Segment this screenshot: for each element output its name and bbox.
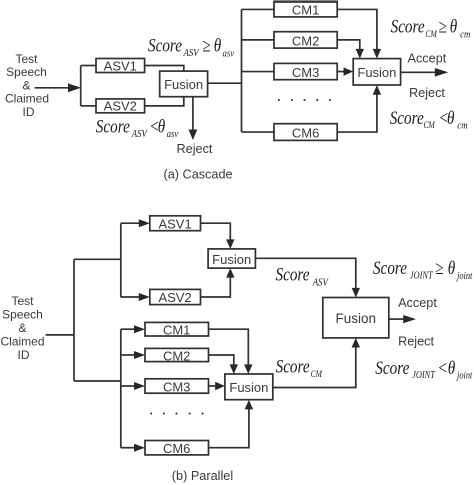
- arrowhead: into CM3 bottom: [134, 382, 145, 390]
- svg-text:asv: asv: [167, 128, 179, 140]
- dots top: [278, 99, 280, 101]
- wire: accept arrow line bottom: [389, 318, 404, 320]
- box CM6 top: [274, 124, 337, 141]
- svg-text:θ: θ: [448, 258, 456, 279]
- svg-text:Fusion: Fusion: [164, 77, 203, 92]
- svg-text:Score: Score: [96, 116, 130, 137]
- arrowhead: accept top: [435, 68, 449, 77]
- svg-text:Score: Score: [276, 264, 310, 285]
- box CM1 top: [274, 2, 337, 17]
- svg-text:≥: ≥: [435, 258, 443, 279]
- svg-text:θ: θ: [447, 107, 455, 128]
- label Score_ASV < theta_asv: [96, 116, 179, 141]
- arrowhead: CM3 into fusionB right: [215, 382, 225, 390]
- arrowhead: into CM2 bottom: [134, 351, 145, 359]
- box CM3 bottom: [145, 379, 209, 393]
- arrowhead: into CM6 bottom: [134, 444, 145, 452]
- svg-text:&: &: [18, 321, 26, 335]
- svg-text:<: <: [437, 357, 447, 378]
- wire: CM3 to fusionB left: [209, 385, 216, 387]
- arrowhead: CM2 into fusion2 down: [356, 49, 364, 59]
- svg-text:≥: ≥: [202, 35, 210, 56]
- wire: bus to CM1 arrow shaft: [121, 328, 136, 330]
- box ASV2 top: [96, 99, 145, 113]
- arrowhead: accept bottom: [403, 315, 416, 323]
- node: test speech claimed id bottom: [0, 294, 44, 362]
- label Score_JOINT < theta_joint: [375, 357, 472, 382]
- svg-text:CM1: CM1: [163, 323, 190, 338]
- wire: bus to CM1: [242, 8, 275, 10]
- wire: ASV2 to fusion1 connector: [145, 97, 184, 106]
- svg-text:CM6: CM6: [163, 441, 190, 456]
- box CM6 bottom: [145, 441, 209, 455]
- wire: top CM bus vertical: [241, 9, 243, 132]
- arrowhead: ASV1 into fusionA down: [226, 239, 234, 249]
- box FusionB bottom: [225, 374, 273, 400]
- arrowhead: into CM1 bottom: [134, 325, 145, 333]
- arrowhead: CM1 into fusionB down: [244, 364, 252, 374]
- wire: CM1 to fusion2 top: [337, 9, 377, 49]
- svg-text:Claimed: Claimed: [0, 335, 44, 349]
- svg-text:joint: joint: [455, 371, 472, 382]
- svg-text:θ: θ: [450, 16, 458, 37]
- svg-text:Score: Score: [390, 107, 424, 128]
- svg-text:Accept: Accept: [398, 296, 437, 310]
- box CM1 bottom: [145, 322, 209, 336]
- dots bottom: [150, 412, 152, 414]
- wire: CM6 to fusionB bottom: [209, 409, 249, 448]
- arrowhead: CM6 into fusionB up: [245, 400, 253, 410]
- svg-text:CM: CM: [424, 119, 436, 130]
- svg-text:cm: cm: [460, 29, 470, 41]
- wire: bus to ASV1 arrow shaft: [121, 222, 140, 224]
- box Fusion1 top: [160, 71, 208, 97]
- box CM2 bottom: [145, 348, 209, 361]
- wire: CM6 to fusion2 bottom: [337, 94, 377, 132]
- svg-text:ASV2: ASV2: [158, 290, 191, 305]
- node: test speech claimed id top: [5, 52, 49, 119]
- box ASV1 bottom: [150, 216, 201, 231]
- box ASV2 bottom: [150, 289, 201, 304]
- svg-text:Speech: Speech: [2, 308, 43, 322]
- box Fusion2 top: [353, 59, 400, 85]
- svg-text:Reject: Reject: [398, 335, 434, 349]
- wire: accept arrow line top: [401, 71, 436, 73]
- label Score_JOINT >= theta_joint: [373, 258, 473, 283]
- label Score_ASV >= theta_asv: [148, 35, 235, 60]
- box final Fusion: [323, 298, 389, 338]
- svg-text:ASV1: ASV1: [104, 58, 137, 73]
- arrowhead: into ASV2 bottom: [139, 293, 150, 301]
- svg-text:Score: Score: [276, 356, 310, 377]
- wire: bus to CM6: [242, 131, 275, 133]
- wire: bus to CM3 arrow shaft: [121, 385, 136, 387]
- svg-text:CM6: CM6: [292, 126, 319, 141]
- label Score_CM >= theta_cm: [391, 16, 471, 41]
- arrowhead: scoreCM into final fusion up: [352, 338, 360, 348]
- wire: CM3 to fusion2 left: [337, 71, 344, 73]
- svg-text:ASV: ASV: [183, 47, 201, 59]
- wire: stem to ASV bus: [74, 258, 121, 260]
- box CM2 top: [274, 32, 337, 48]
- wire: bus to CM2 arrow shaft: [121, 354, 136, 356]
- wire: fusion1 reject drop: [192, 97, 194, 131]
- wire: top input line: [35, 87, 71, 89]
- svg-text:Reject: Reject: [177, 142, 213, 156]
- svg-text:ASV2: ASV2: [104, 99, 137, 114]
- svg-text:JOINT: JOINT: [412, 370, 435, 381]
- svg-text:cm: cm: [457, 120, 467, 132]
- svg-text:asv: asv: [222, 47, 234, 59]
- wire: stub to ASV2: [81, 105, 96, 107]
- wire: bottom CM bus vertical: [120, 329, 122, 448]
- svg-text:Reject: Reject: [409, 86, 445, 100]
- svg-text:&: &: [22, 78, 30, 92]
- svg-text:Fusion: Fusion: [357, 65, 396, 80]
- svg-text:ASV: ASV: [312, 277, 330, 289]
- wire: stub to ASV1: [81, 65, 96, 67]
- arrowhead: top input: [68, 83, 81, 92]
- svg-text:Fusion: Fusion: [212, 252, 251, 267]
- box ASV1 top: [96, 59, 145, 73]
- svg-text:ID: ID: [18, 348, 30, 362]
- svg-text:Score: Score: [148, 35, 182, 56]
- wire: bus to CM3: [242, 71, 275, 73]
- svg-text:Test: Test: [11, 294, 34, 308]
- wire: top input branch vertical: [80, 66, 82, 106]
- wire: stem to CM bus: [74, 380, 121, 382]
- svg-text:Test: Test: [15, 52, 38, 66]
- arrowhead: CM6 into fusion2 up: [373, 85, 381, 95]
- wire: ASV2 to fusionA: [201, 277, 231, 297]
- svg-text:ASV1: ASV1: [158, 216, 191, 231]
- svg-text:Fusion: Fusion: [229, 380, 268, 395]
- arrowhead: CM2 into fusionB down: [230, 364, 238, 374]
- svg-text:CM: CM: [311, 368, 323, 379]
- svg-text:Score: Score: [373, 258, 407, 279]
- svg-text:CM1: CM1: [292, 3, 319, 18]
- label Score_CM bottom: [276, 356, 323, 379]
- box CM3 top: [274, 63, 337, 79]
- clipped box remnant above CM1: [273, 0, 338, 2]
- wire: bus to CM6 arrow shaft: [121, 447, 136, 449]
- svg-text:CM2: CM2: [163, 348, 190, 363]
- svg-text:Accept: Accept: [408, 52, 447, 66]
- arrowhead: scoreASV into final fusion down: [352, 288, 360, 298]
- label Score_ASV bottom: [276, 264, 330, 289]
- svg-text:ID: ID: [23, 105, 35, 119]
- arrowhead: ASV2 into fusionA up: [226, 268, 234, 278]
- arrowhead: CM3 into fusion2 right: [344, 67, 354, 75]
- svg-text:JOINT: JOINT: [410, 271, 433, 282]
- wire: CM2 to fusionB: [209, 355, 234, 365]
- wire: ASV1 to fusionA: [201, 223, 231, 240]
- svg-text:Score: Score: [391, 16, 425, 37]
- wire: ASV1 to fusion1 connector: [145, 66, 184, 72]
- svg-text:θ: θ: [158, 116, 166, 137]
- wire: bottom main stem: [73, 259, 75, 381]
- arrowhead: into ASV1 bottom: [139, 219, 150, 227]
- wire: CM2 to fusion2 top: [337, 40, 360, 50]
- wire: fusionB output to final fusion: [273, 347, 356, 388]
- svg-text:θ: θ: [214, 35, 222, 56]
- svg-text:≥: ≥: [438, 16, 446, 37]
- svg-text:θ: θ: [448, 357, 456, 378]
- svg-text:(b) Parallel: (b) Parallel: [172, 469, 233, 483]
- svg-text:ASV: ASV: [131, 128, 149, 140]
- arrowhead: fusion1 reject down: [189, 130, 198, 141]
- svg-text:(a) Cascade: (a) Cascade: [164, 167, 233, 181]
- wire: fusion1 output to CM bus: [208, 82, 242, 84]
- svg-text:Fusion: Fusion: [336, 311, 377, 326]
- svg-text:Speech: Speech: [6, 65, 47, 79]
- wire: fusionA output to final fusion: [255, 258, 355, 288]
- wire: CM1 to fusionB: [209, 329, 249, 365]
- svg-text:Claimed: Claimed: [5, 92, 49, 106]
- svg-text:CM3: CM3: [163, 379, 190, 394]
- svg-text:CM3: CM3: [292, 65, 319, 80]
- arrowhead: CM1 into fusion2 down: [373, 49, 381, 59]
- svg-text:joint: joint: [455, 271, 472, 282]
- wire: bottom input line: [46, 334, 74, 336]
- svg-text:Score: Score: [375, 357, 409, 378]
- wire: bus to ASV2 arrow shaft: [121, 296, 140, 298]
- wire: bottom ASV bus vertical: [120, 223, 122, 297]
- svg-text:CM: CM: [425, 28, 437, 39]
- svg-text:CM2: CM2: [292, 33, 319, 48]
- box FusionA bottom: [208, 249, 255, 268]
- label Score_CM < theta_cm: [390, 107, 468, 132]
- wire: bus to CM2: [242, 39, 275, 41]
